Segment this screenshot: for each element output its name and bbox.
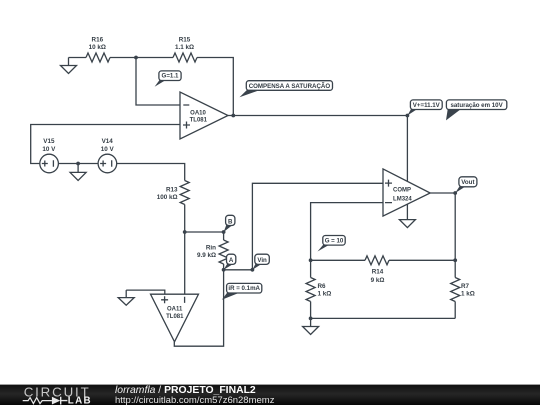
label OA11 name xyxy=(166,307,184,320)
junction R7/R14 xyxy=(453,258,457,262)
label COMP name xyxy=(393,187,412,202)
svg-text:10 V: 10 V xyxy=(101,146,115,153)
svg-text:Rin: Rin xyxy=(206,245,216,252)
wire xyxy=(454,302,456,319)
wire xyxy=(58,163,98,165)
CircuitLab logo xyxy=(23,385,92,405)
svg-text:R14: R14 xyxy=(372,269,384,276)
wire xyxy=(228,115,407,117)
junction V+ node xyxy=(406,114,410,118)
op-amp OA11 xyxy=(151,294,199,342)
svg-text:COMPENSA A SATURAÇÃO: COMPENSA A SATURAÇÃO xyxy=(249,83,331,90)
wire xyxy=(454,193,456,260)
wire xyxy=(223,264,225,270)
wire xyxy=(311,317,456,319)
resistor R13 xyxy=(180,181,189,205)
wire xyxy=(136,58,180,106)
wire xyxy=(69,57,87,59)
annotation G = 10 xyxy=(318,236,346,252)
wire xyxy=(389,259,455,261)
wire xyxy=(174,270,223,346)
wire xyxy=(310,302,312,319)
junction R6/R14 xyxy=(309,258,313,262)
resistor R15 xyxy=(173,53,197,62)
label R15 value xyxy=(175,37,194,51)
node B flag xyxy=(224,215,235,232)
wire xyxy=(110,57,173,59)
label Rin value xyxy=(197,245,216,259)
wire xyxy=(185,231,224,233)
wire xyxy=(454,260,456,277)
node Vin junction xyxy=(251,268,255,272)
junction bottom ground xyxy=(309,317,313,321)
svg-text:V+=11.1V: V+=11.1V xyxy=(413,102,441,109)
wire xyxy=(430,192,455,194)
svg-text:G = 10: G = 10 xyxy=(325,237,344,244)
wire xyxy=(406,116,408,182)
voltage source V14 xyxy=(98,154,117,173)
resistor R7 xyxy=(451,278,460,302)
node Vout flag xyxy=(455,177,477,193)
annotation iR = 0.1mA xyxy=(222,283,262,299)
svg-text:COMP: COMP xyxy=(393,187,411,193)
svg-text:10 kΩ: 10 kΩ xyxy=(89,44,106,51)
wire xyxy=(197,58,233,116)
resistor Rin xyxy=(219,240,228,264)
svg-text:100 kΩ: 100 kΩ xyxy=(157,194,178,201)
op-amp COMP xyxy=(383,169,430,216)
ground (top-left) xyxy=(61,58,77,74)
wire xyxy=(311,203,383,261)
svg-text:1 kΩ: 1 kΩ xyxy=(318,290,332,297)
label R7 value xyxy=(461,283,475,297)
node A flag xyxy=(224,254,236,270)
svg-text:iR = 0.1mA: iR = 0.1mA xyxy=(228,285,260,292)
node A junction xyxy=(222,268,226,272)
wire xyxy=(311,259,365,261)
svg-text:A: A xyxy=(229,257,234,264)
junction between V15 and V14 xyxy=(76,162,80,166)
wire xyxy=(224,269,253,271)
annotation COMPENSA A SATURACAO xyxy=(240,81,333,98)
node Vin flag xyxy=(252,254,269,270)
label V15 value xyxy=(42,138,56,153)
svg-text:1.1 kΩ: 1.1 kΩ xyxy=(175,44,194,51)
wire xyxy=(184,205,186,233)
resistor R16 xyxy=(86,53,110,62)
svg-text:OA10: OA10 xyxy=(190,111,206,117)
label R14 value xyxy=(371,269,385,284)
svg-text:V14: V14 xyxy=(102,138,114,145)
resistor R6 xyxy=(306,278,315,302)
ground (bottom) xyxy=(303,318,319,334)
wire xyxy=(252,183,383,269)
wire xyxy=(117,164,185,181)
ground (COMP negative supply) xyxy=(399,204,415,227)
svg-text:Vin: Vin xyxy=(257,257,267,264)
svg-text:OA11: OA11 xyxy=(167,307,183,313)
wire xyxy=(310,260,312,277)
svg-text:R15: R15 xyxy=(179,37,191,44)
svg-text:9 kΩ: 9 kΩ xyxy=(371,277,385,284)
op-amp OA10 xyxy=(180,92,228,139)
wire xyxy=(184,232,186,294)
svg-text:9.9 kΩ: 9.9 kΩ xyxy=(197,252,216,259)
svg-text:R6: R6 xyxy=(318,283,327,290)
svg-text:V15: V15 xyxy=(43,138,55,145)
svg-text:TL081: TL081 xyxy=(166,314,184,320)
svg-text:R16: R16 xyxy=(92,37,104,44)
label R13 value xyxy=(157,187,178,202)
junction node at R16/R15 xyxy=(134,56,138,60)
wire xyxy=(31,125,180,164)
svg-text:1 kΩ: 1 kΩ xyxy=(461,290,475,297)
annotation saturacao em 10V xyxy=(446,100,507,121)
node Vout junction xyxy=(453,191,457,195)
svg-text:R13: R13 xyxy=(166,187,178,194)
svg-text:TL081: TL081 xyxy=(190,118,208,124)
svg-text:B: B xyxy=(228,218,233,225)
wire xyxy=(223,232,225,240)
footer bar xyxy=(0,385,540,405)
resistor R14 xyxy=(365,256,389,265)
svg-text:10 V: 10 V xyxy=(42,146,56,153)
junction OA10 output xyxy=(231,114,235,118)
svg-text:Vout: Vout xyxy=(461,179,474,186)
label V14 value xyxy=(101,138,115,153)
label R16 value xyxy=(89,37,106,51)
svg-text:saturação em 10V: saturação em 10V xyxy=(450,102,503,109)
annotation V+=11.1V flag xyxy=(407,100,442,116)
svg-text:http://circuitlab.com/cm57z6n2: http://circuitlab.com/cm57z6n28memz xyxy=(115,395,275,405)
junction R13 bottom xyxy=(183,230,187,234)
label R6 value xyxy=(318,283,332,297)
annotation G=1.1 xyxy=(155,71,181,87)
voltage source V15 xyxy=(40,154,59,173)
ground (OA11 non-inverting input) xyxy=(118,290,134,305)
wire xyxy=(126,290,165,294)
svg-text:LAB: LAB xyxy=(68,395,92,405)
svg-text:R7: R7 xyxy=(461,283,470,290)
svg-text:LM324: LM324 xyxy=(393,196,412,202)
ground (between V15 and V14) xyxy=(70,164,86,181)
svg-text:G=1.1: G=1.1 xyxy=(162,73,179,80)
label OA10 name xyxy=(190,111,208,124)
node B junction xyxy=(222,230,226,234)
